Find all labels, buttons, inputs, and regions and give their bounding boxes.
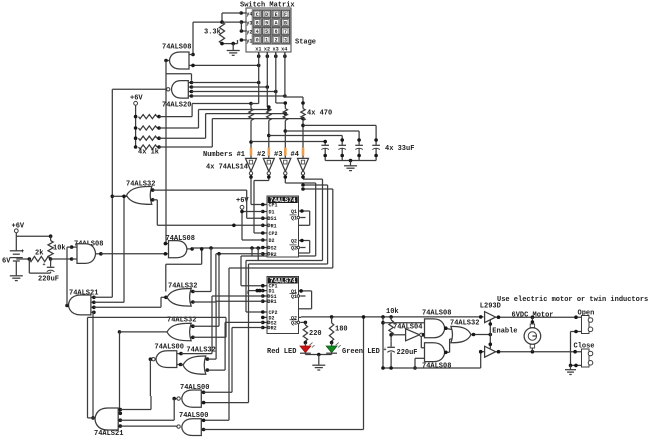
and-gate U1 74ALS08: [170, 52, 190, 69]
wire cap bottom loop: [29, 259, 50, 273]
wire wrap3 down: [241, 183, 316, 256]
wire motor top: [531, 317, 535, 324]
capacitor C2 33uF: [338, 145, 346, 160]
wire U12 in2 stub: [191, 300, 195, 304]
ground at switches: [565, 365, 576, 374]
wire U6 out to U7 in2: [101, 253, 165, 255]
wire 180 tap: [331, 317, 333, 323]
wire wrap4 to FF2 CP2: [246, 261, 263, 313]
capacitor C3 33uF: [355, 145, 363, 160]
wire U16 in1 stub: [206, 357, 210, 361]
wire U1 output bus down: [165, 61, 167, 244]
wire U5 D1 line: [248, 289, 263, 294]
gate U19 74ALS08 label: [422, 362, 451, 370]
svg-text:R1: R1: [271, 299, 277, 305]
svg-text:10k: 10k: [386, 308, 399, 316]
wire U11 in2: [94, 301, 124, 303]
wire U12 in1 via: [193, 248, 211, 292]
gate U15 74ALS00 label: [155, 344, 184, 352]
wire U4 Q1bar stub: [300, 217, 305, 219]
wire U10 in1 stub: [201, 419, 205, 423]
and-gate U14 74ALS21: [95, 408, 118, 430]
svg-text:B: B: [284, 20, 287, 26]
wire wrap4 down: [246, 179, 323, 260]
wire U16 in2 to U5 S2: [207, 322, 262, 370]
wire U8 in2 stub: [151, 198, 155, 202]
svg-text:Use electric motor or twin ind: Use electric motor or twin inductors: [497, 296, 648, 304]
wire U14 in3 from U9: [120, 419, 174, 421]
wire U13 in1 stub: [191, 324, 195, 328]
wire bottom rail: [204, 429, 364, 431]
wire col1 to inverter: [249, 121, 253, 159]
svg-text:4x 74ALS14: 4x 74ALS14: [206, 163, 248, 171]
wire U12 output: [164, 296, 168, 300]
resistor 470 #3: [283, 101, 287, 120]
svg-text:R2: R2: [271, 252, 277, 258]
wire U9 output down: [172, 397, 177, 420]
wire U5 Q1 loop: [299, 289, 312, 309]
svg-text:220uF: 220uF: [38, 276, 59, 284]
led D2 label: [342, 348, 380, 356]
wire U13 in1 via: [193, 254, 219, 326]
wire U5 Q2 rail: [299, 316, 302, 318]
switch S1 open label: [578, 309, 595, 317]
svg-text:+: +: [43, 262, 46, 268]
wire keypad row y4 stub: [239, 11, 246, 15]
wire U1 output: [164, 59, 169, 63]
wire U14 in4 from U10: [120, 425, 177, 427]
power +6V at U4: [236, 197, 249, 209]
wire U17 output: [444, 326, 452, 330]
svg-text:74ALS08: 74ALS08: [422, 362, 451, 370]
svg-text:180: 180: [335, 326, 348, 334]
svg-text:4x 33uF: 4x 33uF: [385, 145, 414, 153]
gate U20 74ALS32 label: [450, 320, 479, 328]
wire U21 out rail: [496, 315, 582, 319]
svg-text:+: +: [384, 347, 387, 353]
wire U14 input stubs: [118, 408, 122, 428]
svg-text:E: E: [275, 12, 278, 18]
svg-text:x4: x4: [281, 47, 287, 53]
power +6V battery side: [12, 222, 25, 232]
wire bus B down: [111, 89, 115, 297]
wire U7 out to U4 S2: [192, 246, 263, 260]
svg-text:Stage: Stage: [295, 39, 316, 47]
svg-text:+: +: [21, 248, 25, 255]
wire U22 out rail: [496, 350, 582, 354]
wire inv2 out: [254, 175, 271, 181]
wire wrap5 down to U9 in2: [204, 264, 249, 403]
svg-text:CP1: CP1: [269, 203, 278, 209]
gate U2 74ALS20 label: [162, 102, 191, 110]
nand-gate U10 74ALS00: [177, 419, 201, 436]
switch S2 close: [582, 349, 593, 367]
wire U16 in2 stub: [206, 368, 210, 372]
wire U2 in2 to x2 col: [192, 85, 270, 89]
svg-text:6V: 6V: [2, 257, 11, 265]
wire caps common rail: [325, 159, 376, 163]
wire inv3 out wrap: [284, 175, 316, 183]
svg-text:+6V: +6V: [12, 222, 25, 230]
wire U14 in2 from U13: [119, 412, 122, 414]
wire U4 Q1 loop: [299, 209, 310, 225]
wire U11 in3: [94, 297, 167, 307]
svg-text:74ALS21: 74ALS21: [94, 430, 123, 438]
svg-text:74ALS08: 74ALS08: [162, 44, 191, 52]
numbers label: [203, 151, 299, 159]
wire U13 out down to U14 in2: [119, 332, 121, 413]
svg-text:y4: y4: [246, 11, 252, 17]
svg-text:0: 0: [256, 38, 259, 44]
gate U9 74ALS00 label: [180, 384, 209, 392]
inverter U3B 74ALS14: [263, 158, 274, 175]
wire U9 in1 stub: [201, 391, 205, 395]
svg-text:Q1: Q1: [291, 294, 297, 300]
wire U8 in1 to U4 S1: [153, 190, 263, 218]
motor M1: [524, 324, 541, 348]
orange net highlights: [250, 148, 305, 156]
wire bottom rail right: [381, 366, 481, 370]
wire U12 in2 to U4 R2: [193, 252, 263, 302]
wire U16 output to U15 in2: [181, 364, 184, 366]
svg-text:2k: 2k: [35, 250, 43, 258]
svg-text:CP2: CP2: [269, 231, 278, 237]
capacitor C6 220uF: [384, 342, 418, 368]
svg-text:Q2: Q2: [291, 320, 297, 326]
gate U1 74ALS08 label: [162, 44, 191, 52]
wire keypad row y2 stub: [240, 29, 246, 33]
led D1 red: [300, 343, 315, 354]
wire 10k to inverter: [389, 333, 405, 342]
svg-text:74ALS20: 74ALS20: [162, 102, 191, 110]
wire y3 to U1 input: [191, 22, 195, 56]
wire U5 input pin stubs: [261, 284, 269, 329]
wire U15 in1 to U5 S1: [181, 296, 263, 354]
wire U8 in2 to U4 R1: [153, 200, 263, 227]
wire U15 in2 stub: [177, 363, 183, 367]
capacitor C4 33uF with label: [372, 145, 414, 161]
led D2 green: [326, 343, 341, 354]
wire y3 row: [193, 20, 241, 24]
svg-text:4: 4: [256, 29, 259, 35]
flip-flop U5 74ALS74: [267, 277, 300, 334]
wire U2 in3 to x3 col: [192, 90, 278, 94]
svg-text:3.3k: 3.3k: [204, 29, 221, 37]
and-gate U19 74ALS08: [425, 343, 445, 362]
wire U12 in1 stub: [191, 290, 195, 294]
wire U11 input stubs: [91, 296, 96, 315]
svg-text:8: 8: [256, 20, 259, 26]
svg-text:9: 9: [265, 20, 268, 26]
node 2k 10k junction: [49, 257, 53, 261]
and-gate U11 74ALS21: [69, 295, 91, 315]
wire 1k-1 staircase to col1: [159, 102, 253, 117]
wire y2 jog: [240, 22, 242, 31]
svg-text:4x 1k: 4x 1k: [138, 149, 159, 157]
wire +6V rail: [16, 233, 52, 251]
inverter U3D 74ALS14: [298, 158, 309, 175]
buffer U21 L293D top: [479, 312, 496, 323]
capacitor C1 33uF: [321, 145, 329, 160]
wire U19 output: [444, 339, 452, 354]
gate U11 74ALS21 label: [69, 289, 98, 297]
wire node to U6 in2: [51, 257, 74, 261]
wire U2 in1 to x1 col: [192, 81, 261, 85]
svg-text:Numbers #1: Numbers #1: [203, 151, 245, 159]
wire U19 in2: [413, 358, 424, 370]
svg-text:x3: x3: [273, 47, 279, 53]
wire inv2 to FF1 CP2: [254, 181, 263, 234]
gate U7 74ALS08 label: [166, 235, 195, 243]
enable label: [492, 327, 517, 335]
wire Q2 rail: [301, 315, 483, 319]
driver L293D label: [480, 302, 501, 310]
gate U16 74ALS32 label: [186, 346, 215, 354]
wire U11 in1: [94, 296, 112, 298]
resistor R1 3.3k: [204, 22, 225, 43]
wire U7 output: [187, 247, 194, 251]
svg-text:74ALS32: 74ALS32: [186, 346, 215, 354]
svg-text:+6V: +6V: [236, 197, 249, 205]
wire U14 out across: [88, 316, 227, 318]
wire rail corner down: [382, 317, 384, 368]
svg-text:10k: 10k: [53, 244, 66, 252]
or-gate U8 74ALS32: [127, 186, 152, 204]
svg-text:Q2: Q2: [291, 246, 297, 252]
resistor R5 180: [329, 323, 347, 344]
resistors 4x 1k: [134, 115, 161, 157]
wire U16 in1 to U5 R1: [207, 301, 262, 359]
wire wrap3 to FF2 CP1: [241, 256, 263, 286]
wire U2 input stubs: [188, 81, 193, 98]
gate U13 74ALS32 label: [167, 316, 196, 324]
svg-text:#3: #3: [274, 151, 282, 159]
wire U20 output to enable: [471, 333, 492, 337]
wire inv1 out to FF1 CP1: [249, 175, 263, 205]
wire bus C down: [122, 195, 126, 303]
wire red led to rail: [304, 353, 306, 354]
svg-text:74ALS08: 74ALS08: [422, 309, 451, 317]
svg-text:220uF: 220uF: [397, 349, 418, 357]
switch S2 close label: [574, 343, 595, 351]
wire open switch bottom: [571, 330, 582, 366]
wire U13 output: [118, 330, 168, 334]
keypad row labels y4-y1: [246, 11, 252, 44]
svg-text:Q2: Q2: [291, 239, 297, 245]
or-gate U13 74ALS32: [167, 323, 191, 341]
wire Q2bar to 220: [304, 322, 306, 325]
svg-text:D2: D2: [269, 238, 275, 244]
svg-text:x1: x1: [255, 47, 261, 53]
wire 1k-4 staircase to col4: [159, 119, 303, 147]
or-gate U16 74ALS32: [183, 356, 206, 374]
keypad column labels x1-x4: [255, 47, 287, 53]
svg-text:#2: #2: [257, 151, 265, 159]
svg-text:#4: #4: [291, 151, 299, 159]
wire col x4 down: [285, 52, 305, 120]
svg-text:y3: y3: [246, 20, 252, 26]
wire keypad column stubs x1-x4: [257, 52, 287, 58]
svg-text:A: A: [275, 20, 278, 26]
wire col x1 down: [251, 52, 259, 104]
wire col4 to inverter: [301, 121, 305, 159]
wire 1k-2 staircase to col2: [159, 110, 269, 129]
gate U12 74ALS32 label: [168, 282, 197, 290]
wire col4 to cap4: [303, 125, 378, 144]
gate U8 74ALS32 label: [126, 180, 155, 188]
motor label: [512, 311, 554, 319]
ground under battery: [10, 276, 23, 281]
wire U8 output: [112, 195, 126, 197]
wire U4 Q2bar stub: [300, 247, 305, 249]
nand-gate U15 74ALS00: [152, 351, 177, 368]
battery B1 6V: [2, 248, 25, 275]
resistor 470 #4 with label: [301, 97, 332, 121]
power +6V left: [130, 95, 143, 147]
wire y4 row to resistor: [222, 13, 241, 22]
wire U15 in1 stub: [177, 352, 183, 356]
wire enable vertical: [489, 320, 493, 349]
wire resistor bottom to y1: [220, 40, 237, 45]
wire inv4 out wrap: [301, 175, 322, 179]
wire U9 in2 stub: [201, 401, 205, 405]
led D1 label: [267, 348, 296, 356]
wire to U17 in1: [381, 321, 424, 325]
svg-text:Red LED: Red LED: [267, 348, 296, 356]
gate U6 74ALS08 label: [74, 240, 103, 248]
wire U4 input pin stubs: [261, 203, 269, 256]
wire wrap5: [249, 183, 328, 264]
ground under 3.3k: [227, 44, 240, 56]
svg-text:2: 2: [275, 38, 278, 44]
wire wrap6: [229, 187, 333, 268]
svg-text:y2: y2: [246, 29, 252, 35]
svg-text:x2: x2: [264, 47, 270, 53]
wire x1 column to U1 input2: [191, 64, 260, 68]
svg-text:74ALS04: 74ALS04: [393, 323, 422, 331]
wire rail up to U22: [481, 352, 485, 368]
svg-text:5: 5: [265, 29, 268, 35]
switch matrix keypad label: [240, 2, 295, 10]
inverter U18 74ALS04: [393, 323, 423, 341]
wire col x2 down: [267, 52, 271, 111]
svg-text:R2: R2: [271, 326, 277, 332]
svg-text:Enable: Enable: [492, 327, 517, 335]
wire U14 output node: [88, 317, 96, 419]
wire col x3 down: [276, 52, 287, 115]
svg-text:Q1: Q1: [291, 209, 297, 215]
svg-text:1: 1: [265, 38, 268, 44]
wire U18 out: [422, 333, 426, 337]
wire U7 input stubs: [164, 242, 169, 256]
wire U5 Q2bar stub: [300, 321, 307, 325]
svg-text:D1: D1: [269, 210, 275, 216]
capacitor C5 220uF: [38, 259, 59, 284]
svg-text:S2: S2: [271, 246, 277, 252]
resistor R6 10k: [386, 308, 399, 335]
svg-text:3: 3: [284, 38, 287, 44]
wire U13 in2 via: [193, 317, 226, 337]
gate U17 74ALS08 label: [422, 309, 451, 317]
resistor 470 #2: [267, 105, 271, 120]
wire U1 input stubs: [189, 55, 193, 66]
wire U2 in4 to x4 col: [192, 94, 287, 98]
svg-text:6: 6: [275, 29, 278, 35]
wire green led to rail: [331, 353, 333, 354]
wire col2 to cap2: [269, 136, 344, 145]
wire U6 output: [96, 252, 103, 256]
wire U7 out wrap: [166, 247, 204, 291]
wire close switch bottom: [569, 364, 582, 368]
wire +6V to U4 D1 D2: [240, 209, 263, 240]
wire motor bottom: [531, 348, 533, 352]
gate U2 74ALS20: [167, 81, 189, 99]
and-gate U17 74ALS08: [425, 319, 445, 338]
flip-flop U4 74ALS74: [267, 196, 300, 258]
wire U2 output bus: [112, 88, 166, 90]
svg-text:R1: R1: [271, 223, 277, 229]
svg-text:Green LED: Green LED: [342, 348, 380, 356]
nand-gate U9 74ALS00: [177, 390, 201, 407]
resistor R2 2k: [29, 250, 50, 262]
wire bottom rail up: [363, 317, 365, 430]
svg-text:C: C: [256, 12, 259, 18]
or-gate U20 74ALS32: [451, 326, 471, 342]
wire U4 Q2 loop: [299, 239, 310, 253]
svg-text:y1: y1: [246, 38, 252, 44]
wire keypad row y1 stub: [240, 38, 246, 42]
switch matrix 4x4 keypad: [246, 8, 291, 52]
inverter U3C 74ALS14: [280, 158, 291, 175]
wire U10 in2 stub: [201, 428, 205, 432]
ground under caps: [344, 161, 357, 171]
note text: [497, 296, 648, 304]
wire U10 output left: [176, 426, 178, 427]
ground under leds: [312, 355, 325, 371]
svg-text:Q1: Q1: [291, 216, 297, 222]
gate U14 74ALS21 label: [94, 430, 123, 438]
wire battery tap to 2k: [16, 257, 31, 261]
resistor R4 220: [303, 325, 321, 344]
wire U1 out to U2 input: [166, 74, 192, 81]
buffer U22 L293D bottom: [479, 346, 496, 357]
inverters label: [206, 163, 248, 171]
svg-text:F: F: [284, 12, 287, 18]
wire U18 out down to U19 in1: [421, 337, 424, 348]
switch S1 open: [582, 316, 593, 334]
wire U15 output: [149, 357, 153, 396]
wire U14 in1: [120, 396, 151, 410]
wire U11 in4 feedback down: [92, 312, 95, 418]
svg-text:S1: S1: [271, 216, 277, 222]
wire wrap6 down to U10 in1: [204, 268, 229, 420]
resistor 470 #1: [249, 104, 253, 121]
and-gate U7 74ALS08: [169, 241, 187, 258]
wire U13 in2 stub: [191, 336, 195, 340]
wire U6 input stubs: [70, 245, 77, 259]
wire U11 output up: [65, 247, 71, 307]
svg-text:220: 220: [309, 330, 322, 338]
resistor R3 10k: [48, 236, 66, 258]
svg-text:7: 7: [284, 29, 287, 35]
wire led common rail: [305, 353, 331, 357]
and-gate U6 74ALS08: [77, 244, 96, 264]
wire col1 to cap1: [251, 140, 327, 145]
wire col3 to inverter: [284, 121, 288, 159]
wire col2 to inverter: [267, 121, 271, 159]
wire U9 in1 to U5 R2: [204, 328, 263, 393]
wire col3 to cap3: [285, 131, 361, 145]
